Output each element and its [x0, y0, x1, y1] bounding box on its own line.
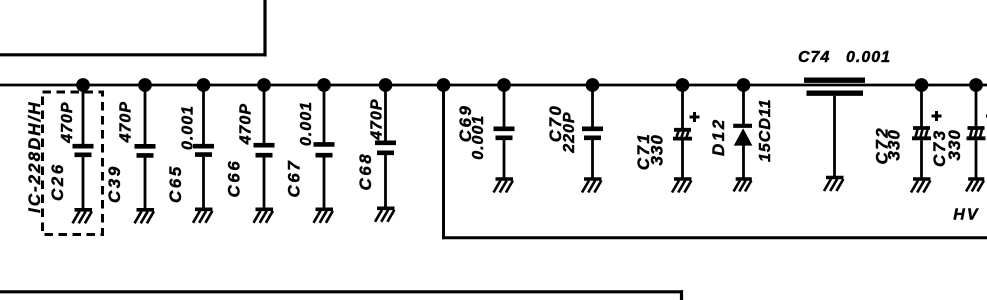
wire: C72 top lead: [920, 85, 923, 126]
svg-text:330: 330: [945, 129, 964, 160]
wire: C66 top lead: [263, 85, 266, 143]
ground (C70): [582, 179, 602, 193]
node: junction dot C69: [497, 78, 511, 92]
wire: C68 bottom lead: [384, 155, 387, 207]
ground (C71): [672, 179, 692, 193]
wire: C69 bottom lead: [503, 140, 506, 178]
capacitor C74 (bus to ground): [804, 77, 865, 82]
node: junction dot C26: [76, 78, 90, 92]
wire: C26 bottom lead: [82, 157, 85, 208]
svg-text:470P: 470P: [118, 101, 135, 143]
wire: C26 top lead: [82, 85, 85, 144]
ground (C73): [966, 179, 984, 191]
wire: C70 top lead: [591, 85, 594, 127]
polarity + (C71): [690, 116, 700, 119]
svg-text:C26: C26: [48, 162, 67, 201]
polarity + (C72): [932, 115, 942, 118]
svg-text:0.001: 0.001: [180, 105, 197, 150]
node: junction dot C65: [197, 78, 211, 92]
capacitor C68: [375, 141, 396, 146]
diode D12 (cathode bar on top, triangle pointing up): [733, 124, 752, 128]
node: junction dot C66: [257, 78, 271, 92]
ground (C39): [135, 210, 155, 224]
wire: C74 bottom lead: [833, 96, 836, 176]
wire: C68 top lead: [384, 85, 387, 141]
wire: D12 bottom lead: [742, 145, 745, 178]
wire: C73 top lead: [975, 85, 978, 126]
svg-text:220P: 220P: [561, 111, 578, 153]
svg-text:C67: C67: [285, 159, 304, 198]
ground (C68): [375, 208, 395, 222]
wire: HV box left edge: [442, 85, 445, 239]
node: junction dot C39: [138, 78, 152, 92]
wire: D12 top lead: [742, 85, 745, 125]
IC module dashed box IC-228DH/H: [43, 92, 103, 235]
svg-text:15CD11: 15CD11: [757, 98, 774, 162]
svg-text:C39: C39: [105, 164, 124, 203]
capacitor C71 (electrolytic): [674, 128, 691, 132]
wire: C71 bottom lead: [681, 141, 684, 178]
ground (C69): [494, 179, 514, 193]
capacitor C72 (electrolytic): [913, 126, 930, 130]
node: junction dot C70: [586, 78, 600, 92]
polarity + (C73, clipped at edge): [986, 115, 987, 118]
node: junction at HV box corner: [437, 78, 451, 92]
svg-text:0.001: 0.001: [470, 115, 487, 160]
svg-text:HV: HV: [953, 207, 979, 224]
capacitor C26: [73, 144, 94, 149]
node: junction dot C67: [317, 78, 331, 92]
ground (C26): [73, 210, 93, 224]
svg-text:C74: C74: [798, 49, 830, 66]
svg-text:470P: 470P: [59, 102, 76, 144]
capacitor C73 (electrolytic): [968, 126, 985, 130]
wire: bottom box right edge: [680, 290, 683, 300]
capacitor C69: [494, 127, 515, 132]
ground (C66): [254, 209, 274, 223]
ground (C74): [824, 178, 844, 192]
capacitor C39: [135, 144, 156, 149]
wire: C73 bottom lead: [975, 140, 978, 177]
svg-text:C66: C66: [225, 159, 244, 198]
wire: bottom box top edge: [0, 290, 683, 293]
wire: C70 bottom lead: [591, 140, 594, 178]
svg-text:0.001: 0.001: [846, 49, 891, 66]
wire: top-left box bottom edge: [0, 53, 267, 56]
wire: HV box bottom edge: [442, 236, 987, 239]
ground (C67): [314, 209, 334, 223]
ground (C72): [911, 179, 931, 193]
wire: C65 bottom lead: [202, 157, 205, 208]
wire: C67 top lead: [323, 85, 326, 142]
svg-text:330: 330: [648, 134, 667, 165]
wire: C66 bottom lead: [263, 157, 266, 208]
ground (D12): [734, 179, 752, 191]
wire: C39 top lead: [144, 85, 147, 144]
capacitor C67: [314, 142, 335, 147]
capacitor C70: [582, 127, 603, 132]
node: junction dot C68: [379, 78, 393, 92]
ground (C65): [193, 209, 213, 223]
svg-text:0.001: 0.001: [298, 101, 315, 146]
svg-text:470P: 470P: [238, 103, 255, 145]
capacitor C66: [254, 143, 275, 148]
svg-text:330: 330: [885, 129, 904, 160]
svg-text:D12: D12: [709, 117, 728, 156]
wire: top-left box right edge: [263, 0, 266, 56]
svg-text:C68: C68: [356, 152, 375, 191]
svg-text:470P: 470P: [369, 99, 386, 141]
wire: C71 top lead: [681, 85, 684, 128]
svg-text:C65: C65: [166, 164, 185, 203]
wire: C69 top lead: [503, 85, 506, 127]
node: junction dot C71: [676, 78, 690, 92]
capacitor C65: [193, 144, 214, 149]
node: junction dot C73: [969, 78, 983, 92]
node: junction dot C72: [915, 78, 929, 92]
wire: main horizontal bus: [0, 84, 987, 87]
wire: C39 bottom lead: [144, 158, 147, 209]
wire: C72 bottom lead: [920, 140, 923, 177]
wire: C65 top lead: [202, 85, 205, 144]
svg-text:IC-228DH/H: IC-228DH/H: [25, 100, 44, 213]
wire: C67 bottom lead: [323, 157, 326, 208]
node: junction dot D12: [737, 78, 751, 92]
